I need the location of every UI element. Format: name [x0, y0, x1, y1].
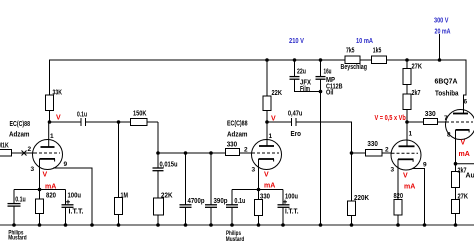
svg-text:I.T.T.: I.T.T.: [285, 209, 299, 216]
svg-text:27K: 27K: [412, 63, 423, 70]
svg-text:mA: mA: [459, 151, 470, 158]
svg-text:mA: mA: [264, 183, 275, 190]
svg-text:Film: Film: [300, 86, 310, 93]
svg-text:3: 3: [252, 167, 256, 174]
svg-text:16u: 16u: [324, 69, 332, 76]
svg-text:3: 3: [391, 167, 395, 174]
svg-text:I.T.T.: I.T.T.: [69, 209, 84, 216]
svg-text:9: 9: [423, 162, 427, 169]
svg-text:820: 820: [394, 193, 404, 200]
svg-text:1k5: 1k5: [373, 48, 382, 55]
svg-text:820: 820: [46, 193, 56, 200]
svg-text:0.1u: 0.1u: [15, 197, 26, 204]
svg-text:V = 0,5 x Vb: V = 0,5 x Vb: [375, 115, 406, 122]
svg-text:6: 6: [464, 99, 468, 106]
svg-text:330: 330: [425, 111, 436, 118]
svg-text:10 mA: 10 mA: [356, 36, 373, 45]
svg-text:20 mA: 20 mA: [435, 27, 451, 36]
svg-text:M1K: M1K: [0, 143, 9, 150]
svg-text:Mustard: Mustard: [226, 236, 245, 243]
svg-text:Ero: Ero: [291, 131, 302, 138]
svg-text:8: 8: [447, 132, 451, 139]
svg-text:2: 2: [28, 146, 32, 153]
svg-text:V: V: [271, 116, 276, 123]
svg-text:Adzam: Adzam: [227, 132, 248, 139]
svg-text:Oil: Oil: [326, 90, 334, 97]
svg-text:EC(C)88: EC(C)88: [227, 121, 248, 128]
svg-text:V: V: [56, 115, 61, 122]
svg-text:mA: mA: [45, 183, 56, 190]
svg-text:22u: 22u: [297, 69, 306, 76]
svg-text:Ausgang: Ausgang: [466, 173, 474, 180]
svg-text:V: V: [461, 140, 466, 147]
svg-text:7k5: 7k5: [346, 48, 355, 55]
svg-text:Beyschlag: Beyschlag: [341, 64, 368, 71]
svg-text:7: 7: [444, 115, 448, 122]
svg-text:Mustard: Mustard: [8, 234, 27, 241]
svg-text:1: 1: [50, 133, 54, 140]
svg-text:6BQ7A: 6BQ7A: [435, 79, 458, 86]
svg-text:210 V: 210 V: [289, 36, 304, 45]
svg-text:2: 2: [244, 147, 248, 154]
svg-text:100u: 100u: [68, 193, 82, 200]
svg-text:390p: 390p: [214, 198, 228, 205]
svg-text:2: 2: [385, 147, 389, 154]
svg-text:100u: 100u: [285, 194, 298, 201]
svg-text:Adzam: Adzam: [9, 132, 30, 139]
svg-text:33K: 33K: [53, 90, 63, 97]
svg-text:330: 330: [367, 141, 378, 148]
svg-text:1: 1: [269, 133, 273, 140]
svg-text:330: 330: [227, 142, 238, 149]
svg-text:V: V: [43, 172, 48, 179]
svg-text:0,015u: 0,015u: [160, 162, 178, 169]
svg-text:3: 3: [31, 166, 35, 173]
svg-text:27K: 27K: [458, 194, 469, 201]
svg-text:Toshiba: Toshiba: [435, 91, 459, 98]
svg-text:1: 1: [409, 131, 413, 138]
svg-text:0.1u: 0.1u: [234, 198, 245, 205]
svg-text:V: V: [403, 173, 408, 180]
svg-text:0,47u: 0,47u: [288, 111, 303, 118]
svg-text:9: 9: [64, 161, 68, 168]
svg-text:330: 330: [260, 194, 270, 201]
svg-text:1M: 1M: [121, 193, 129, 200]
svg-text:EC(C)88: EC(C)88: [10, 121, 31, 128]
svg-text:4700p: 4700p: [188, 198, 205, 205]
svg-text:22K: 22K: [161, 193, 173, 200]
svg-text:2k7: 2k7: [412, 90, 421, 97]
svg-text:22K: 22K: [272, 90, 283, 97]
svg-text:V: V: [264, 172, 269, 179]
svg-text:300 V: 300 V: [434, 16, 449, 25]
svg-text:150K: 150K: [133, 111, 147, 118]
svg-text:0.1u: 0.1u: [77, 112, 87, 119]
svg-text:mA: mA: [404, 184, 415, 191]
svg-text:220K: 220K: [354, 195, 369, 202]
